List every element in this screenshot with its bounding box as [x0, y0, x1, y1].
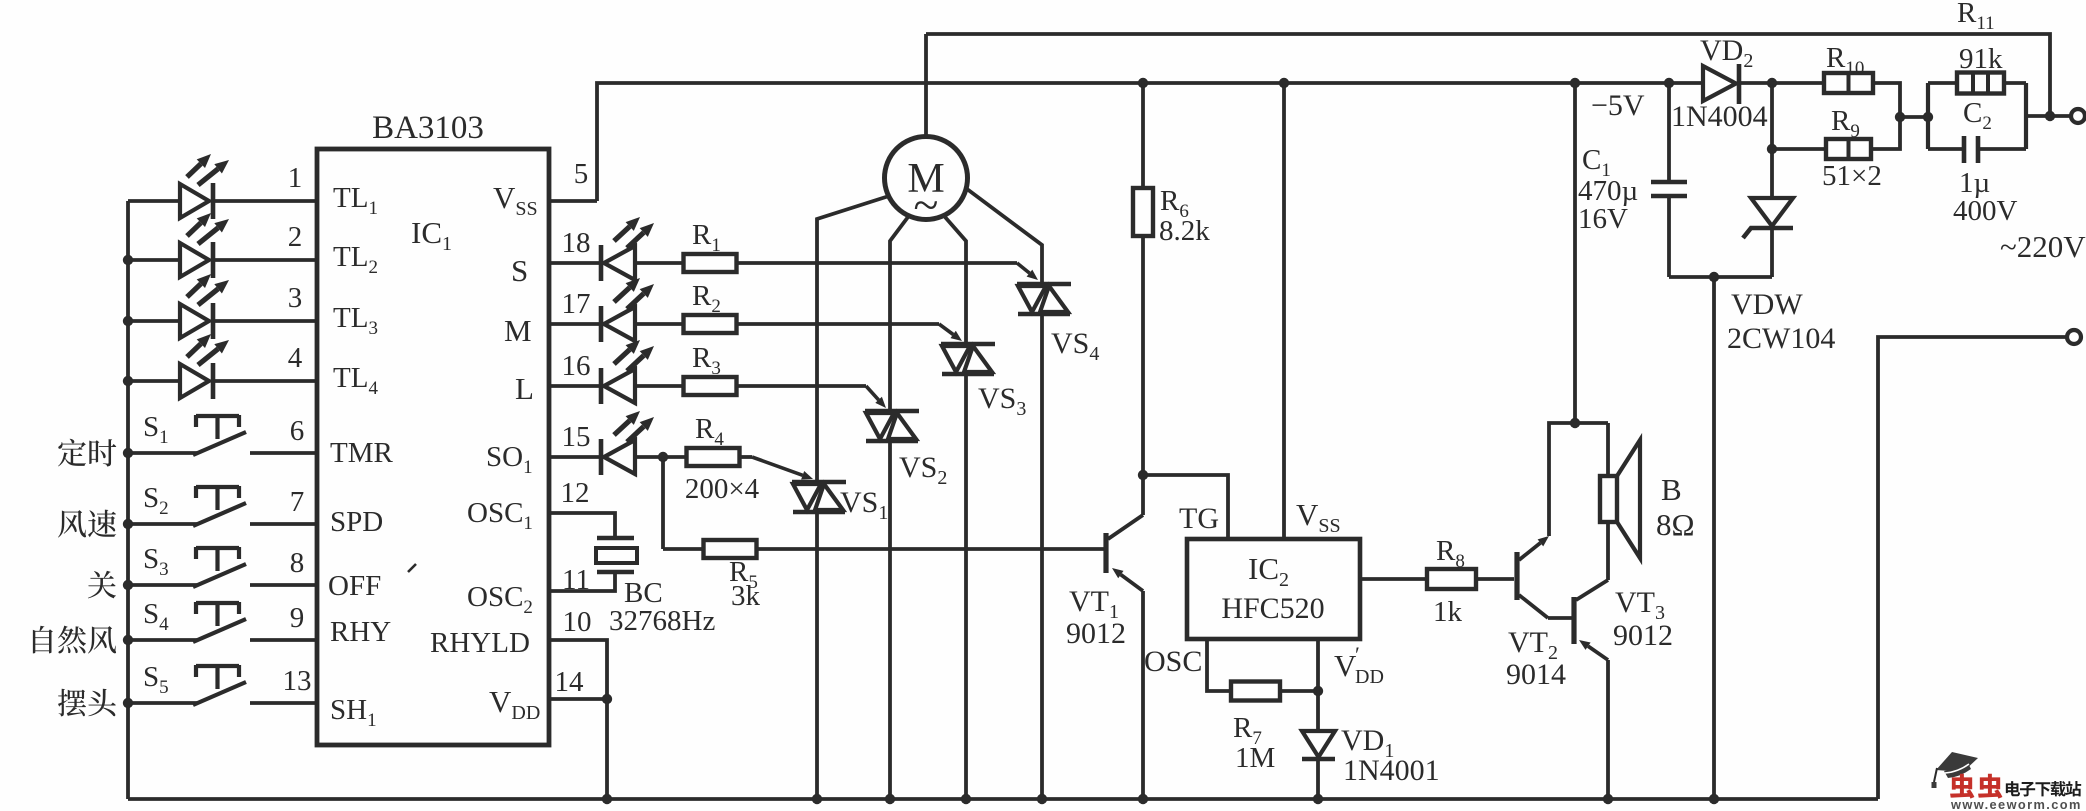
crystal BC bottom plate — [597, 570, 634, 574]
junction VS1 at common rail — [812, 794, 822, 804]
triac VS3 — [941, 342, 995, 347]
wire to R5 — [663, 547, 704, 551]
wire motor tap 2 — [890, 217, 908, 411]
svg-text:1k: 1k — [1433, 596, 1463, 628]
wire speaker to VT3 collector — [1606, 522, 1610, 580]
transistor VT2 collector (arrowed) — [1519, 543, 1540, 560]
triac VS1 — [792, 480, 846, 485]
resistor R1 — [684, 254, 737, 272]
svg-text:91k: 91k — [1959, 43, 2003, 75]
wire triac VS4 to common rail — [1040, 314, 1044, 799]
junction R6 at -5V rail — [1138, 78, 1148, 88]
junction key rail at S5 — [123, 698, 133, 708]
label 自然风 — [33, 626, 53, 654]
wire gate diagonal with arrow — [939, 324, 953, 335]
label 摆头 — [58, 689, 86, 717]
resistor R7 — [1231, 682, 1280, 701]
watermark tassel — [1934, 768, 1937, 782]
wire R5 to VT1 base — [756, 547, 1104, 551]
wire LED VL2 to IC1 pin — [213, 258, 317, 262]
IC U2 HFC520 body — [1187, 539, 1360, 639]
diode VD2 — [1703, 66, 1736, 101]
svg-text:2: 2 — [288, 221, 303, 253]
junction VDD at common rail — [602, 794, 612, 804]
resistor R6 — [1133, 188, 1153, 236]
wire LED VL1 to IC1 pin — [213, 199, 317, 203]
wire LED to resistor R2 — [635, 322, 684, 326]
crystal BC top plate — [597, 536, 634, 540]
wire IC1 M pin to LED — [549, 322, 601, 326]
svg-text:5: 5 — [574, 158, 589, 190]
junction key rail at S3 — [123, 580, 133, 590]
resistor R8 — [1427, 569, 1476, 589]
svg-text:9: 9 — [290, 602, 305, 634]
junction VS2 at common rail — [885, 794, 895, 804]
wire rail to LED VL2 — [128, 258, 180, 262]
wire rail to LED VL1 — [128, 199, 180, 203]
wire R6 to VT1 collector — [1141, 236, 1145, 515]
svg-text:OSC1: OSC1 — [467, 497, 533, 534]
svg-text:12: 12 — [561, 477, 590, 509]
svg-text:8Ω: 8Ω — [1656, 507, 1695, 542]
transistor VT1 base bar — [1103, 533, 1108, 573]
junction RC block left node — [1923, 112, 1933, 122]
LED VL4 (TL4 indicator) — [180, 364, 209, 398]
svg-text:−5V: −5V — [1591, 89, 1645, 122]
junction on key rail — [123, 255, 133, 265]
svg-text:15: 15 — [562, 421, 591, 453]
triac VS4 — [1017, 282, 1071, 287]
wire motor tap 4 — [967, 189, 1042, 284]
switch S4 pushbutton — [193, 619, 246, 642]
resistor R2 — [684, 315, 737, 333]
speaker B cone — [1617, 440, 1640, 558]
wire switch S1 to IC1 pin — [250, 451, 317, 455]
svg-text:32768Hz: 32768Hz — [609, 605, 715, 637]
svg-text:OSC: OSC — [1144, 645, 1202, 678]
svg-text:17: 17 — [562, 288, 591, 320]
wire -5V rail to speaker node — [1573, 83, 1577, 423]
svg-text:~: ~ — [914, 179, 939, 230]
triac VS2 — [865, 409, 919, 414]
LED VL1 (TL1 indicator) — [180, 184, 209, 218]
svg-text:S: S — [511, 253, 528, 288]
wire R9 to merge — [1871, 117, 1900, 149]
wire SO1 node down to R5 — [661, 457, 665, 549]
junction R9 tap — [1767, 144, 1777, 154]
junction key rail at S2 — [123, 519, 133, 529]
svg-text:16: 16 — [562, 350, 591, 382]
motor M body — [885, 137, 968, 220]
junction C1 at -5V rail — [1664, 78, 1674, 88]
wire triac VS1 to common rail — [815, 512, 819, 799]
watermark 虫虫 — [1950, 774, 1974, 799]
junction VDD-prime node — [1313, 686, 1323, 696]
transistor VT2 base bar — [1514, 552, 1519, 600]
svg-text:TG: TG — [1179, 502, 1219, 535]
wire R2 to triac gate — [736, 322, 939, 326]
zener VDW — [1751, 198, 1793, 226]
wire tee down to zener — [1770, 83, 1774, 198]
RC block left bus — [1926, 83, 1930, 149]
wire IC1 OSC1 pin to crystal — [549, 513, 615, 538]
LED VL3 (TL3 indicator) — [180, 304, 209, 338]
svg-text:51×2: 51×2 — [1822, 160, 1882, 192]
svg-text:1: 1 — [288, 162, 303, 194]
wire motor to AC rail — [924, 34, 928, 137]
wire AC neutral to common rail — [1878, 337, 2066, 799]
resistor R3 — [684, 377, 737, 395]
transistor VT3 collector — [1576, 580, 1608, 600]
junction key rail at S4 — [123, 635, 133, 645]
LED VL8 (SO1 indicator) — [599, 439, 604, 475]
svg-text:BA3103: BA3103 — [372, 110, 484, 146]
watermark cap band — [1945, 764, 1969, 773]
wire block to 91k — [1928, 81, 1957, 85]
wire gate diagonal with arrow — [752, 457, 803, 475]
switch S5 pushbutton — [193, 682, 246, 705]
label 风速 — [58, 510, 86, 537]
wire -5V rail (VD2 cathode to R10 tee) — [1740, 81, 1772, 85]
transistor VT2 emitter — [1519, 595, 1548, 618]
svg-text:10: 10 — [563, 606, 592, 638]
svg-text:′: ′ — [1355, 642, 1360, 667]
LED VL7 (L indicator) — [599, 368, 604, 404]
wire LED to resistor R3 — [635, 384, 684, 388]
svg-text:www.eeworm.com: www.eeworm.com — [1950, 797, 2082, 811]
watermark cap crown — [1944, 763, 1971, 778]
junction VT1 at common rail — [1138, 794, 1148, 804]
wire VD1 to common rail — [1316, 759, 1320, 799]
terminal AC neutral — [2067, 330, 2081, 344]
wire triac VS2 to common rail — [888, 441, 892, 799]
transistor VT1 collector — [1108, 515, 1143, 539]
wire rail to switch S2 — [128, 522, 197, 526]
svg-text:1N4004: 1N4004 — [1671, 100, 1768, 133]
junction on key rail — [123, 376, 133, 386]
svg-text:TMR: TMR — [330, 437, 394, 469]
junction SO1/R5 node — [658, 452, 668, 462]
capacitor C1 — [1651, 180, 1687, 185]
wire rail to switch S3 — [128, 583, 197, 587]
wire LED to resistor R1 — [635, 261, 684, 265]
junction VD2/R10/zener tee — [1767, 78, 1777, 88]
junction VD1 at common rail — [1313, 794, 1323, 804]
svg-text:OFF: OFF — [328, 570, 381, 602]
diode VD1 — [1302, 731, 1335, 757]
svg-text:~220V: ~220V — [2000, 229, 2086, 264]
junction TG node — [1138, 470, 1148, 480]
svg-text:13: 13 — [283, 665, 312, 697]
svg-text:DD: DD — [1355, 666, 1384, 688]
wire R10 to merge — [1873, 83, 1900, 117]
junction RHYLD/VDD — [602, 694, 612, 704]
wire VT3 emitter to common rail — [1606, 660, 1610, 799]
wire R8 to VT2 base — [1476, 577, 1514, 581]
wire IC2 OSC pin to R7 — [1207, 639, 1231, 691]
svg-text:4: 4 — [288, 342, 303, 374]
svg-text:3k: 3k — [731, 580, 761, 612]
svg-text:8.2k: 8.2k — [1159, 215, 1210, 247]
svg-text:1N4001: 1N4001 — [1343, 754, 1440, 787]
wire R4 to triac gate — [739, 455, 752, 459]
svg-text:9012: 9012 — [1066, 617, 1126, 650]
IC U1 BA3103 body — [317, 149, 549, 745]
wire merge to RC block — [1900, 115, 1928, 119]
resistor R5 — [704, 540, 757, 558]
wire rail to LED VL4 — [128, 379, 180, 383]
junction IC2 VSS at -5V rail — [1279, 78, 1289, 88]
wire rail to switch S1 — [128, 451, 197, 455]
label 关 — [88, 571, 116, 599]
wire VT2 emitter to VT3 base — [1548, 616, 1572, 620]
wire IC2 VSS pin to -5V rail — [1282, 83, 1286, 539]
junction on key rail — [123, 316, 133, 326]
wire speaker node down — [1606, 423, 1610, 476]
wire gate diagonal with arrow — [1017, 263, 1030, 273]
wire left key/LED rail — [126, 201, 130, 799]
switch S3 pushbutton — [193, 564, 246, 587]
wire LED VL3 to IC1 pin — [213, 319, 317, 323]
resistor R11 91k — [1957, 73, 2004, 94]
svg-text:14: 14 — [555, 666, 585, 698]
switch S1 pushbutton — [193, 432, 246, 455]
wire IC2 VDD pin down — [1316, 639, 1320, 731]
terminal AC live — [2071, 109, 2085, 123]
svg-text:SPD: SPD — [330, 506, 383, 538]
junction merge node — [1895, 112, 1905, 122]
resistor R9 — [1826, 139, 1871, 159]
wire rail to LED VL3 — [128, 319, 180, 323]
svg-text:400V: 400V — [1953, 195, 2018, 227]
wire IC2 output to R8 — [1360, 577, 1427, 581]
transistor VT3 base bar — [1571, 597, 1576, 644]
wire tee to R10 — [1772, 81, 1824, 85]
LED VL2 (TL2 indicator) — [180, 243, 209, 277]
svg-text:200×4: 200×4 — [685, 473, 760, 505]
wire R3 to triac gate — [736, 384, 866, 388]
svg-text:1M: 1M — [1235, 742, 1275, 774]
svg-text:2CW104: 2CW104 — [1727, 322, 1835, 355]
wire switch S2 to IC1 pin — [250, 522, 317, 526]
capacitor C2 — [1962, 136, 1967, 163]
speaker B frame — [1600, 476, 1617, 522]
junction bottom link to drop wire — [1709, 272, 1719, 282]
wire VT1 emitter to common rail — [1141, 591, 1145, 799]
svg-text:3: 3 — [288, 282, 303, 314]
LED VL6 (M indicator) — [599, 306, 604, 342]
junction speaker supply node — [1570, 418, 1580, 428]
svg-text:VDW: VDW — [1731, 288, 1803, 321]
wire switch S5 to IC1 pin — [250, 701, 317, 705]
svg-text:B: B — [1661, 472, 1682, 507]
wire gate diagonal with arrow — [866, 386, 879, 400]
wire switch S3 to IC1 pin — [250, 583, 317, 587]
wire -5V rail (left segment from IC1 pin5 riser to VD2 anode) — [597, 83, 1703, 201]
wire rail to switch S4 — [128, 638, 197, 642]
svg-text:OSC2: OSC2 — [467, 581, 533, 618]
svg-text:8: 8 — [290, 547, 305, 579]
junction VT3 at common rail — [1603, 794, 1613, 804]
wire VDD down to common rail — [605, 699, 609, 799]
wire crystal to IC1 OSC2 pin — [549, 572, 615, 591]
wire IC1 VDD pin — [549, 697, 607, 701]
svg-text:L: L — [515, 371, 534, 406]
wire LED VL4 to IC1 pin — [213, 379, 317, 383]
wire motor tap 1 — [817, 196, 889, 482]
wire IC1 RHYLD pin — [549, 640, 607, 699]
wire bottom common rail — [128, 797, 1878, 801]
RC block right bus — [2024, 83, 2028, 149]
svg-text:HFC520: HFC520 — [1221, 592, 1324, 625]
wire R1 to triac gate — [736, 261, 1017, 265]
wire C1 bottom lead — [1667, 196, 1671, 277]
switch S2 pushbutton — [193, 503, 246, 526]
wire LED to resistor R4 — [635, 455, 687, 459]
junction key rail at S1 — [123, 448, 133, 458]
wire 91k to right bus — [2004, 81, 2026, 85]
watermark cap board — [1936, 752, 1978, 772]
junction AC live corner — [2045, 111, 2055, 121]
wire C1 top lead — [1667, 83, 1671, 182]
wire R9 tap to R9 — [1772, 147, 1826, 151]
svg-text:V: V — [1334, 648, 1357, 683]
transistor VT3 emitter (arrow to base) — [1588, 646, 1608, 660]
wire -5V rail to R6 — [1141, 83, 1145, 188]
svg-text:6: 6 — [290, 415, 305, 447]
wire rail to switch S5 — [128, 701, 197, 705]
wire C2 to right bus — [1978, 147, 2026, 151]
wire zener to bottom link — [1770, 226, 1774, 277]
wire motor tap 3 — [945, 217, 966, 344]
svg-text:RHYLD: RHYLD — [430, 627, 530, 659]
wire R7 to VDD node — [1280, 689, 1318, 693]
junction VS4 at common rail — [1037, 794, 1047, 804]
label 定时 — [58, 439, 86, 467]
LED VL5 (S indicator) — [599, 245, 604, 281]
svg-text:7: 7 — [290, 486, 305, 518]
wire drop to common rail — [1712, 277, 1716, 799]
crystal BC body — [596, 548, 637, 563]
svg-text:RHY: RHY — [330, 616, 391, 648]
wire triac VS3 to common rail — [964, 374, 968, 799]
svg-text:16V: 16V — [1578, 203, 1628, 235]
svg-text:9012: 9012 — [1613, 619, 1673, 652]
wire IC1 SO1 pin to LED — [549, 455, 601, 459]
junction drop at common rail — [1709, 794, 1719, 804]
wire block tap to AC terminal — [2026, 114, 2070, 118]
resistor R4 — [687, 448, 740, 466]
wire TG node to IC2 TG pin — [1143, 475, 1228, 539]
wire IC1 S pin to LED — [549, 261, 601, 265]
junction speaker branch at -5V rail — [1570, 78, 1580, 88]
resistor R10 — [1824, 73, 1873, 93]
svg-text:9014: 9014 — [1506, 658, 1566, 691]
wire C1/zener bottom link — [1669, 275, 1772, 279]
svg-text:18: 18 — [562, 227, 591, 259]
svg-text:M: M — [504, 313, 532, 348]
junction VS3 at common rail — [961, 794, 971, 804]
watermark 电子下载站 — [2006, 781, 2020, 796]
wire IC1 L pin to LED — [549, 384, 601, 388]
wire VT2 collector up — [1549, 423, 1608, 536]
wire IC1 pin5 Vss lead — [549, 199, 597, 203]
wire top AC live rail — [926, 34, 2050, 116]
transistor VT1 emitter — [1121, 575, 1143, 591]
wire switch S4 to IC1 pin — [250, 638, 317, 642]
wire block to C2 — [1928, 147, 1963, 151]
